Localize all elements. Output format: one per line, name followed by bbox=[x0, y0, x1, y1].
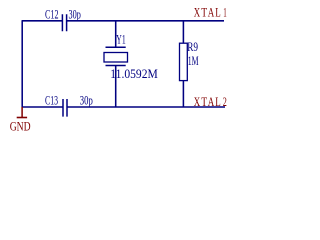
svg-text:11.0592M: 11.0592M bbox=[110, 66, 158, 81]
svg-text:T: T bbox=[201, 94, 207, 109]
svg-text:X: X bbox=[194, 5, 201, 20]
svg-text:X: X bbox=[194, 94, 201, 109]
svg-text:1: 1 bbox=[223, 5, 227, 20]
svg-text:30p: 30p bbox=[69, 6, 81, 21]
svg-text:GND: GND bbox=[10, 119, 31, 134]
svg-text:C12: C12 bbox=[45, 6, 59, 21]
svg-text:A: A bbox=[208, 94, 215, 109]
svg-text:C13: C13 bbox=[45, 93, 58, 108]
svg-text:1M: 1M bbox=[188, 53, 199, 68]
svg-text:R9: R9 bbox=[187, 39, 198, 54]
svg-text:2: 2 bbox=[223, 94, 227, 109]
svg-text:T: T bbox=[201, 5, 207, 20]
svg-text:A: A bbox=[208, 5, 215, 20]
svg-text:30p: 30p bbox=[80, 93, 93, 108]
svg-text:L: L bbox=[215, 94, 221, 109]
svg-text:L: L bbox=[215, 5, 221, 20]
svg-text:Y1: Y1 bbox=[116, 31, 125, 46]
